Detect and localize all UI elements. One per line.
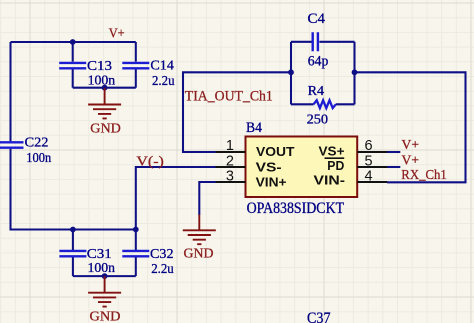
wire feedback to RX_Ch1 / pin 4 <box>355 72 466 182</box>
node feedback right junction <box>352 69 358 75</box>
svg-text:V+: V+ <box>402 153 420 168</box>
wire C31 bottom lead <box>72 257 74 276</box>
svg-text:1: 1 <box>226 138 234 154</box>
svg-text:C14: C14 <box>150 59 174 74</box>
svg-text:C22: C22 <box>25 135 49 150</box>
svg-text:100n: 100n <box>26 151 51 166</box>
svg-text:VIN+: VIN+ <box>256 174 287 189</box>
wire C4 left lead <box>291 41 312 43</box>
svg-text:C32: C32 <box>150 247 174 262</box>
svg-text:C37: C37 <box>307 310 331 323</box>
svg-text:RX_Ch1: RX_Ch1 <box>401 168 447 183</box>
node feedback left junction <box>288 69 294 75</box>
wire pin 3 to ground <box>199 182 215 215</box>
svg-text:100n: 100n <box>88 261 116 276</box>
svg-text:6: 6 <box>365 138 373 154</box>
svg-text:GND: GND <box>90 309 121 323</box>
svg-text:5: 5 <box>365 153 373 169</box>
svg-text:C4: C4 <box>308 11 326 27</box>
svg-text:C13: C13 <box>87 59 112 74</box>
wire left rail lower to C31 junction <box>11 149 136 230</box>
wire V+ top rail <box>11 41 136 43</box>
svg-text:PD: PD <box>327 158 344 173</box>
wire pin 5 stub <box>387 166 400 168</box>
wire feedback left rail <box>290 42 292 105</box>
wire pin 6 stub <box>387 151 400 153</box>
wire left rail upper (to C22) <box>9 42 11 141</box>
svg-text:VS-: VS- <box>256 159 282 174</box>
pin 5 <box>357 166 387 168</box>
wire C14 bottom lead <box>135 69 137 87</box>
node junction C32 / V(-) <box>133 227 139 233</box>
pin 6 <box>357 151 387 153</box>
svg-text:GND: GND <box>184 246 214 261</box>
resistor R4 <box>314 100 336 108</box>
wire C13-C14 bottom rail <box>73 87 136 89</box>
svg-text:4: 4 <box>365 169 373 185</box>
ground GND at pin 3 <box>183 215 216 245</box>
wire R4 left lead <box>291 103 314 105</box>
wire V(-) to pin 2 <box>136 167 216 230</box>
capacitor C14 <box>122 63 149 68</box>
svg-text:2.2u: 2.2u <box>152 74 175 89</box>
wire C4 right lead <box>319 41 354 43</box>
capacitor C22 <box>0 142 24 147</box>
svg-text:VIN-: VIN- <box>314 173 346 188</box>
svg-text:V(-): V(-) <box>136 154 164 169</box>
svg-text:C31: C31 <box>87 247 112 262</box>
pin 4 <box>357 181 387 183</box>
wire C31-C32 bottom rail <box>73 275 136 277</box>
overline for PD <box>325 157 345 159</box>
node GND junction top group <box>102 85 108 91</box>
wire R4 right lead <box>336 103 355 105</box>
wire TIA_OUT_Ch1 from pin 1 to feedback <box>183 72 291 152</box>
wire C13 top lead <box>72 42 74 62</box>
svg-text:VOUT: VOUT <box>256 144 295 159</box>
svg-text:2.2u: 2.2u <box>151 262 174 277</box>
svg-text:2: 2 <box>226 153 234 169</box>
op-amp U1 B4 OPA838SIDCKT body <box>246 137 358 198</box>
ground GND under C31/C32 <box>88 276 121 307</box>
svg-text:OPA838SIDCKT: OPA838SIDCKT <box>247 200 345 217</box>
svg-text:250: 250 <box>307 113 329 128</box>
capacitor C31 <box>59 251 86 256</box>
svg-text:3: 3 <box>226 169 234 185</box>
pin 2 <box>216 166 246 168</box>
svg-text:TIA_OUT_Ch1: TIA_OUT_Ch1 <box>185 89 273 105</box>
wire C32 bottom lead <box>135 257 137 276</box>
svg-text:R4: R4 <box>308 84 325 99</box>
svg-text:B4: B4 <box>246 120 262 136</box>
svg-text:V+: V+ <box>402 138 420 153</box>
svg-text:64p: 64p <box>308 54 329 70</box>
wire C32 top lead <box>135 230 137 251</box>
svg-text:V+: V+ <box>109 27 125 42</box>
svg-text:GND: GND <box>90 122 121 137</box>
node GND junction bottom group <box>102 273 108 279</box>
wire C14 top lead <box>135 42 137 62</box>
wire feedback right rail <box>353 42 355 105</box>
svg-text:VS+: VS+ <box>319 144 345 159</box>
node V+ junction at C13 <box>70 39 76 45</box>
pin 1 <box>216 151 246 153</box>
capacitor C13 <box>59 63 86 68</box>
capacitor C4 <box>313 32 318 51</box>
svg-text:100n: 100n <box>88 73 116 88</box>
wire C13 bottom lead <box>72 69 74 87</box>
wire C31 top lead <box>72 230 74 251</box>
ground GND under C13/C14 <box>88 88 121 119</box>
node junction C31 <box>70 227 76 233</box>
capacitor C32 <box>122 251 149 256</box>
pin 3 <box>216 181 246 183</box>
